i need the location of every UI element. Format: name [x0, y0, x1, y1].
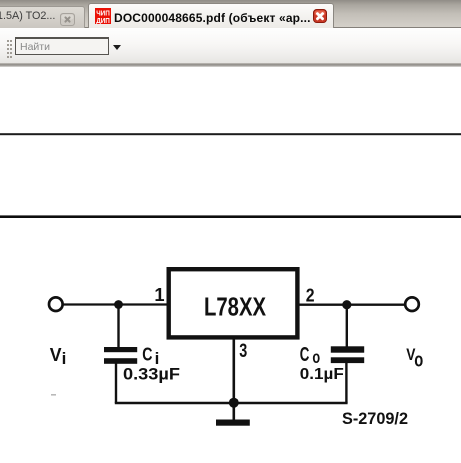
- svg-text:o: o: [312, 347, 320, 367]
- svg-text:1: 1: [154, 284, 164, 305]
- browser tab strip background: [0, 0, 461, 27]
- horizontal rule 2: [0, 215, 461, 218]
- wire: capacitor Ci to ground rail: [115, 364, 117, 404]
- output terminal circle: [405, 297, 419, 311]
- inactive tab (1.5A) TO2...): [0, 6, 85, 28]
- find combobox field: [15, 37, 109, 55]
- svg-text:i: i: [62, 349, 67, 368]
- regulator U1 L78XX box: [169, 269, 298, 337]
- inactive tab close button: [60, 13, 75, 26]
- node GND junction dot: [229, 398, 239, 408]
- scan speck: [51, 394, 56, 396]
- svg-text:S-2709/2: S-2709/2: [342, 409, 408, 428]
- wire: node B down to capacitor Co: [346, 305, 348, 347]
- active tab favicon ЧИП ДИП: [95, 8, 111, 24]
- svg-text:3: 3: [239, 340, 247, 362]
- wire: node A down to capacitor Ci: [117, 305, 119, 348]
- ground symbol bar: [216, 420, 250, 426]
- svg-text:2: 2: [306, 285, 315, 306]
- ground rail wire: [115, 402, 348, 405]
- wire: ground stub: [233, 403, 236, 420]
- active tab title: [114, 11, 314, 25]
- node A junction dot: [114, 300, 123, 309]
- svg-text:L78XX: L78XX: [204, 292, 267, 322]
- inactive tab title: [0, 10, 67, 22]
- tab strip bottom border: [0, 27, 461, 28]
- svg-text:0.1µF: 0.1µF: [300, 366, 344, 383]
- wire: capacitor Co to ground rail: [345, 363, 347, 403]
- wire: input terminal to box pin 1: [63, 303, 167, 305]
- toolbar background: [0, 28, 461, 63]
- capacitor Co top plate: [331, 346, 364, 352]
- capacitor Ci top plate: [104, 347, 137, 352]
- wire: box pin 3 down to ground rail: [233, 339, 236, 403]
- input terminal circle: [49, 297, 63, 311]
- svg-text:o: o: [414, 350, 423, 372]
- horizontal rule 1: [0, 133, 461, 135]
- toolbar bottom shadow: [0, 63, 461, 67]
- wire: box pin 2 to output terminal: [299, 304, 404, 306]
- active tab (DOC000048665.pdf): [88, 3, 334, 28]
- svg-text:C: C: [142, 344, 152, 365]
- capacitor Co bottom plate: [331, 357, 364, 363]
- combobox dropdown arrow: [113, 45, 121, 50]
- svg-text:0.33µF: 0.33µF: [123, 365, 180, 383]
- node B junction dot: [342, 300, 351, 309]
- toolbar grip: [7, 40, 11, 58]
- svg-text:V: V: [50, 345, 62, 365]
- capacitor Ci bottom plate: [104, 358, 137, 364]
- svg-text:C: C: [300, 344, 310, 366]
- active tab red close button: [313, 9, 327, 23]
